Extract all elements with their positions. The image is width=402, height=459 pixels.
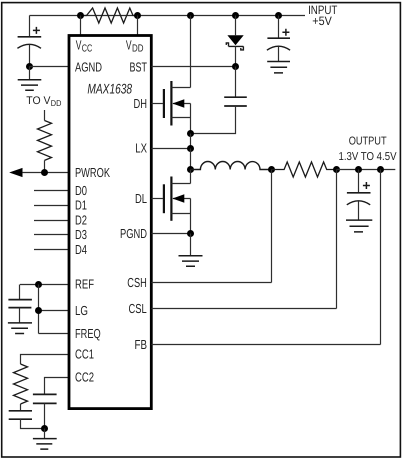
pin label CSL (129, 301, 147, 316)
schottky diode D1 (226, 16, 243, 67)
node compensation common (41, 425, 48, 432)
node output cap (355, 166, 362, 173)
node AGND (26, 63, 33, 70)
ground input cap (267, 62, 290, 73)
svg-text:AGND: AGND (75, 59, 102, 74)
capacitor C4 output (347, 170, 371, 221)
svg-text:CC: CC (82, 44, 93, 55)
pin label FB (135, 337, 148, 352)
wire Q1 drain to rail (190, 16, 192, 88)
svg-text:CSL: CSL (129, 301, 147, 316)
wire REF to LG to FREQ (39, 285, 70, 334)
resistor R3 compensation (14, 364, 28, 404)
node CSH sense (268, 166, 275, 173)
capacitor C2 input bulk (267, 16, 290, 62)
node FB tap (377, 166, 384, 173)
wire output rail (337, 169, 396, 171)
node Q1 source bootstrap (187, 130, 194, 137)
pin label PGND (120, 226, 147, 241)
wire D0 (34, 190, 69, 192)
pin label DH (134, 96, 148, 111)
pin label REF (75, 276, 94, 291)
wire DL gate (151, 198, 163, 200)
wire CC2 (45, 378, 70, 395)
svg-text:CC1: CC1 (75, 347, 94, 362)
pin label PWROK (75, 165, 110, 180)
svg-text:PGND: PGND (120, 226, 147, 241)
capacitor C6 compensation (9, 404, 45, 429)
ground PGND (179, 234, 203, 267)
pin label D3 (75, 227, 87, 242)
ground output cap (346, 220, 372, 232)
wire D4 (34, 249, 69, 251)
wire Q2 source to PGND (190, 214, 192, 234)
node BST (232, 63, 239, 70)
pin label D4 (75, 242, 87, 257)
inductor L1 (191, 162, 272, 170)
pin label CC1 (75, 347, 94, 362)
svg-text:BST: BST (130, 59, 148, 74)
node rail VDD (134, 12, 141, 19)
pin label BST (130, 59, 148, 74)
IC U1 MAX1638 (69, 36, 151, 409)
wire CSL (151, 170, 336, 309)
svg-text:PWROK: PWROK (75, 165, 110, 180)
resistor R4 current sense (272, 162, 337, 177)
wire D2 (34, 220, 69, 222)
svg-text:LG: LG (75, 303, 88, 318)
resistor R2 PWROK pull-up (38, 110, 52, 173)
svg-text:D4: D4 (75, 242, 87, 257)
ground compensation (33, 429, 57, 450)
resistor R1 (81, 8, 138, 23)
label OUTPUT (339, 135, 397, 163)
pin label LG (75, 303, 88, 318)
pin label LX (135, 140, 147, 155)
pin label VDD (126, 38, 144, 55)
svg-text:+5V: +5V (312, 14, 332, 28)
ground REF cap (8, 323, 32, 334)
svg-text:REF: REF (75, 276, 94, 291)
capacitor C5 REF bypass (8, 285, 32, 323)
node rail Q1 drain (187, 12, 194, 19)
node PGND (187, 230, 194, 237)
wire AGND (30, 66, 70, 68)
wire D1 (34, 205, 69, 207)
wire CSH (151, 170, 271, 283)
svg-text:CSH: CSH (127, 275, 147, 290)
wire FB (151, 170, 380, 345)
pin label CSH (127, 275, 147, 290)
wire Q2 drain to inductor node (190, 170, 192, 184)
svg-text:D1: D1 (75, 198, 87, 213)
transistor Q1 high-side MOSFET (164, 81, 191, 126)
wire Q1 source down (190, 118, 192, 134)
label INPUT +5V (308, 3, 338, 28)
pin label CC2 (75, 370, 94, 385)
wire VCC to rail (80, 16, 82, 36)
svg-text:DH: DH (134, 96, 148, 111)
wire LX (151, 134, 190, 149)
pin label DL (135, 191, 147, 206)
pin label FREQ (75, 326, 101, 341)
svg-text:DL: DL (135, 191, 147, 206)
wire LX to inductor node (190, 149, 192, 170)
node inductor input (187, 166, 194, 173)
node LG (35, 307, 42, 314)
svg-text:D2: D2 (75, 212, 87, 227)
capacitor C7 compensation (33, 394, 57, 428)
wire PWROK (22, 172, 69, 174)
wire PGND (151, 233, 190, 235)
wire +5V input rail (30, 15, 306, 17)
wire CC1 (21, 355, 70, 365)
wire DH gate (151, 103, 163, 105)
node CSL sense (333, 166, 340, 173)
node rail input cap (275, 12, 282, 19)
svg-text:TO V: TO V (26, 95, 51, 107)
wire REF (20, 284, 69, 286)
svg-text:DD: DD (132, 44, 144, 55)
node rail diode (232, 12, 239, 19)
svg-text:1.3V TO 4.5V: 1.3V TO 4.5V (339, 151, 397, 163)
wire VDD to rail (137, 16, 139, 36)
svg-text:LX: LX (135, 140, 147, 155)
node LX (187, 145, 194, 152)
svg-text:FB: FB (135, 337, 148, 352)
node REF (35, 281, 42, 288)
wire D3 (34, 234, 69, 236)
ground below C1 (18, 67, 42, 91)
label TO VDD (26, 95, 61, 108)
node rail VCC (77, 12, 84, 19)
svg-text:D3: D3 (75, 227, 87, 242)
wire BST (151, 66, 235, 68)
svg-text:DD: DD (51, 98, 62, 108)
capacitor C3 bootstrap (191, 67, 247, 134)
pin label D2 (75, 212, 87, 227)
svg-text:OUTPUT: OUTPUT (349, 135, 387, 147)
svg-text:MAX1638: MAX1638 (87, 80, 132, 96)
svg-text:V: V (126, 38, 132, 53)
pin label D1 (75, 198, 87, 213)
label MAX1638 (87, 80, 132, 96)
pin label D0 (75, 183, 87, 198)
transistor Q2 low-side MOSFET (164, 177, 191, 221)
node PWROK (41, 169, 48, 176)
svg-text:FREQ: FREQ (75, 326, 101, 341)
capacitor C1 VCC bypass (17, 16, 41, 67)
pin label VCC (76, 38, 93, 55)
arrow PWROK output (9, 168, 22, 177)
svg-text:D0: D0 (75, 183, 87, 198)
svg-text:CC2: CC2 (75, 370, 94, 385)
pin label AGND (75, 59, 102, 74)
